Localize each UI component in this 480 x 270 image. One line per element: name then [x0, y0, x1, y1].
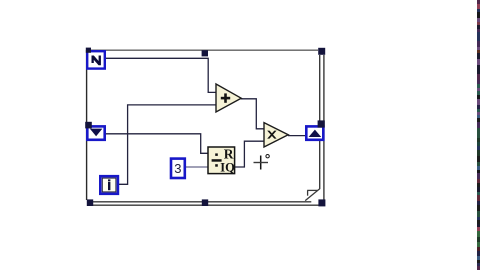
- selection handle bottom-right: [318, 199, 325, 206]
- for loop border: right edge inner line: [319, 55, 321, 189]
- selection handle bottom-left: [87, 199, 93, 206]
- selection handle top-middle: [202, 50, 208, 56]
- wire from constant 3: [186, 166, 208, 168]
- for loop border: top edge: [87, 49, 318, 51]
- left shift register terminal: [87, 126, 104, 139]
- right shift register terminal: [306, 126, 323, 139]
- numeric constant 3: [171, 159, 185, 178]
- add function node: [216, 84, 241, 112]
- svg-text:3: 3: [174, 161, 181, 176]
- folded corner flap top edge: [307, 189, 317, 191]
- svg-text:IQ: IQ: [220, 161, 235, 175]
- selection handle top-right: [318, 48, 325, 55]
- N terminal (loop count): [87, 51, 105, 68]
- multiply function node: [264, 123, 288, 147]
- selection handle bottom-middle: [202, 199, 208, 206]
- for loop border: right edge outer line: [323, 55, 325, 201]
- selection handle middle-right: [318, 120, 325, 127]
- quotient and remainder node: [208, 147, 235, 175]
- wire IQ output to multiply lower input: [235, 141, 264, 167]
- folded corner flap left edge: [307, 190, 309, 195]
- wire from i terminal: [119, 105, 217, 184]
- wire from N terminal horizontal: [106, 58, 217, 92]
- video edge noise column: [477, 0, 480, 270]
- wire multiply output to right shift register: [288, 135, 306, 137]
- folded corner diagonal crease: [305, 189, 320, 201]
- selection handle middle-left: [85, 122, 92, 129]
- cursor crosshair: [254, 155, 270, 170]
- i terminal (iteration): [100, 176, 118, 194]
- for loop border: bottom edge outer line: [87, 204, 324, 206]
- svg-text:R: R: [224, 147, 234, 162]
- for loop border: left edge: [86, 50, 88, 200]
- for loop border: bottom edge inner line: [87, 201, 311, 203]
- wire from left shift register to quotient node: [106, 134, 209, 154]
- selection handle top-left: [86, 48, 91, 53]
- wire add output to multiply: [241, 99, 264, 129]
